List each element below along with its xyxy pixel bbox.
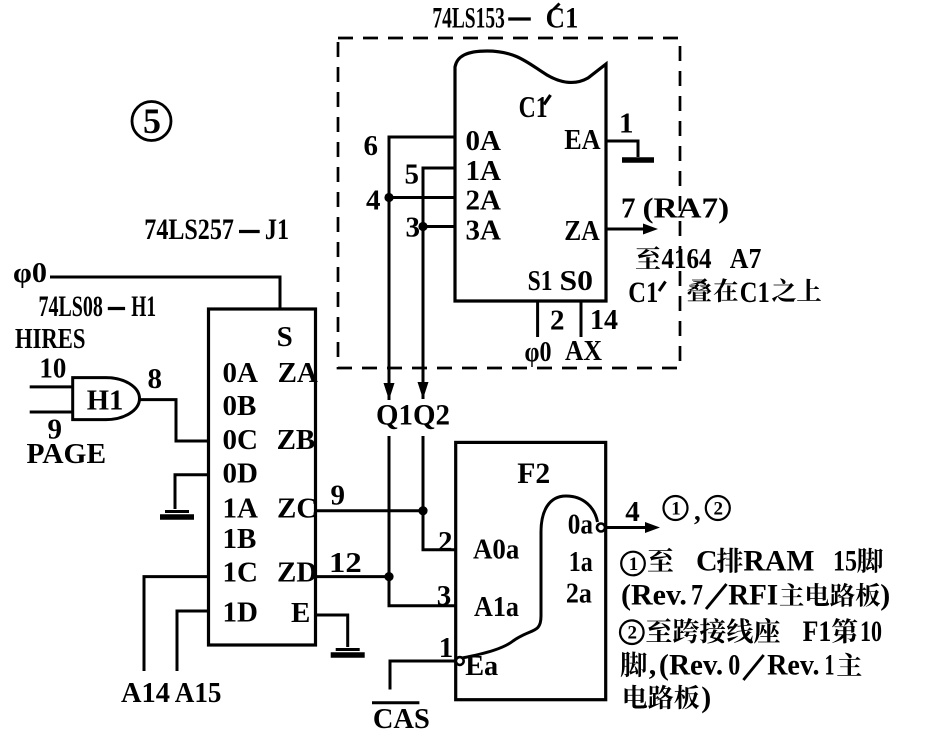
svg-text:3: 3 xyxy=(406,212,421,244)
annotation line 2: (Rev.7/RFI main circuit board) xyxy=(621,579,890,612)
wire E to ground xyxy=(316,615,348,647)
ground at E xyxy=(336,648,360,651)
svg-text:C1: C1 xyxy=(740,276,770,309)
wire 0D to ground xyxy=(175,475,209,509)
svg-text:14: 14 xyxy=(590,304,618,336)
svg-text:F1: F1 xyxy=(803,615,832,648)
svg-text:12: 12 xyxy=(329,547,362,579)
wire Q1 down to A1a pin3 xyxy=(389,436,456,606)
svg-text:7: 7 xyxy=(621,193,636,225)
wire PAGE input xyxy=(30,411,73,414)
svg-text:4: 4 xyxy=(625,496,640,528)
svg-text:10: 10 xyxy=(39,353,66,385)
junction node pin4/Q1 xyxy=(384,193,393,202)
svg-text:AX: AX xyxy=(565,335,602,367)
svg-text:1: 1 xyxy=(619,108,634,140)
title 74LS257-J1 xyxy=(144,213,289,246)
wire 1D to A15 xyxy=(177,611,209,671)
wire pin5 to 1A xyxy=(423,168,455,227)
title 74LS153-C1' xyxy=(432,2,578,35)
svg-text:0D: 0D xyxy=(223,458,258,490)
annotation line 5: circuit board) xyxy=(625,681,712,714)
annotation: C1' stacked on C1 xyxy=(628,276,821,309)
wire ZD output pin12 xyxy=(316,575,390,578)
svg-text:1: 1 xyxy=(629,554,639,575)
svg-text:2a: 2a xyxy=(566,579,592,610)
svg-text:1a: 1a xyxy=(569,547,593,578)
svg-text:S1: S1 xyxy=(528,265,553,297)
svg-text:ZA: ZA xyxy=(564,215,600,247)
svg-text:1: 1 xyxy=(825,649,835,682)
svg-text:0C: 0C xyxy=(223,424,258,456)
svg-text:1: 1 xyxy=(671,499,681,520)
wire phi0 to S pin xyxy=(50,277,280,309)
output bubble at 0a xyxy=(597,524,605,532)
svg-text:CAS: CAS xyxy=(373,703,430,735)
svg-text:9: 9 xyxy=(331,480,346,512)
svg-text:A0a: A0a xyxy=(473,535,519,566)
annotation line 4: pin,(Rev.0/Rev.1 main xyxy=(621,649,862,682)
circled note markers 1,2 at output xyxy=(664,496,730,526)
svg-text:3: 3 xyxy=(437,580,452,612)
svg-text:RAM: RAM xyxy=(743,545,814,578)
svg-text:(RA7): (RA7) xyxy=(643,193,730,225)
svg-text:8: 8 xyxy=(148,363,163,395)
svg-text:2: 2 xyxy=(714,499,724,520)
junction node ZC/Q2 xyxy=(418,506,427,515)
svg-text:): ) xyxy=(701,681,711,714)
svg-text:φ0: φ0 xyxy=(525,336,552,368)
svg-text:ZC: ZC xyxy=(277,493,317,525)
wire Q1 vertical from pin4 junction down with arrow xyxy=(388,198,391,401)
annotation: to 4164 A7 xyxy=(636,243,761,275)
svg-text:0A: 0A xyxy=(466,125,502,157)
ground at EA xyxy=(622,157,654,163)
svg-text:6: 6 xyxy=(364,130,379,162)
junction node ZD/Q1 xyxy=(384,572,393,581)
svg-text:EA: EA xyxy=(564,124,600,156)
svg-text:15: 15 xyxy=(833,545,857,578)
svg-text:2: 2 xyxy=(438,526,453,558)
wire ZC output pin9 xyxy=(316,509,424,512)
svg-text:1: 1 xyxy=(439,632,454,664)
annotation line 1: (1) to C-row RAM pin 15 xyxy=(621,545,883,578)
svg-text:74LS257: 74LS257 xyxy=(144,213,234,246)
wire HIRES input xyxy=(30,385,73,388)
chip J1 (74LS257) body xyxy=(209,309,316,645)
svg-text:2A: 2A xyxy=(466,185,502,217)
svg-text:A7: A7 xyxy=(730,243,762,275)
svg-text:0A: 0A xyxy=(223,357,259,389)
ground at 0D xyxy=(165,510,189,513)
svg-text:3A: 3A xyxy=(466,215,502,247)
svg-text:0a: 0a xyxy=(568,510,593,541)
svg-text:5: 5 xyxy=(143,101,161,141)
svg-text:1A: 1A xyxy=(223,493,259,525)
svg-text:S0: S0 xyxy=(560,265,594,297)
AND gate H1 xyxy=(73,378,140,420)
svg-text:C1: C1 xyxy=(628,276,658,309)
svg-text:C1: C1 xyxy=(546,2,579,35)
svg-text:ZB: ZB xyxy=(277,424,316,456)
inverting bubble at Ea pin1 xyxy=(456,657,464,665)
svg-text:1C: 1C xyxy=(223,557,258,589)
svg-text:5: 5 xyxy=(405,159,420,191)
svg-text:74LS08: 74LS08 xyxy=(39,290,103,323)
svg-text:2: 2 xyxy=(628,623,638,644)
svg-text:ZA: ZA xyxy=(278,357,318,389)
svg-text:(: ( xyxy=(659,649,669,682)
svg-text:HIRES: HIRES xyxy=(15,323,86,355)
svg-text:7: 7 xyxy=(691,579,703,612)
junction node pin3/Q2 xyxy=(418,222,427,231)
title 74LS08-H1 xyxy=(39,290,157,323)
chip F2 body xyxy=(456,442,606,699)
annotation line 3: (2) to jumper socket F1 pin 10 xyxy=(620,615,882,648)
wire H1 output to 0C xyxy=(139,400,209,441)
svg-text:Q1Q2: Q1Q2 xyxy=(376,399,450,432)
svg-text:C1: C1 xyxy=(519,89,548,124)
svg-text:10: 10 xyxy=(860,615,882,648)
wire Q2 down to A0a pin2 xyxy=(423,436,456,550)
wire S1 select pin xyxy=(536,301,539,337)
svg-text:4164: 4164 xyxy=(662,244,712,275)
svg-text:1D: 1D xyxy=(223,597,258,629)
svg-text:RFI: RFI xyxy=(728,579,778,612)
wire ZA output with arrow xyxy=(606,228,648,231)
wire S0 select pin xyxy=(580,301,583,337)
svg-text:J1: J1 xyxy=(265,213,289,246)
svg-text:,: , xyxy=(649,649,657,682)
wire Q2 vertical from pin3 junction down with arrow xyxy=(422,227,425,400)
net label CAS with overline xyxy=(372,703,430,735)
figure number circled 5 xyxy=(132,101,171,141)
multiplexer chip C1' (74LS153) body with torn wavy top xyxy=(455,51,606,301)
svg-text:,: , xyxy=(694,496,701,526)
svg-text:1B: 1B xyxy=(223,523,257,555)
wire CAS to Ea xyxy=(390,661,455,690)
svg-text:H1: H1 xyxy=(87,385,124,417)
chip C1' internal designator label xyxy=(519,89,551,124)
torn-chip curve inside F2 xyxy=(462,496,598,658)
svg-text:C: C xyxy=(696,545,718,578)
svg-text:E: E xyxy=(291,597,310,629)
svg-text:ZD: ZD xyxy=(277,557,317,589)
wire 1C to A14 xyxy=(144,577,209,671)
wire pin4 to 2A xyxy=(389,196,455,199)
svg-text:S: S xyxy=(277,321,293,353)
dashed enclosure box around C1 xyxy=(338,38,680,368)
svg-text:(Rev.: (Rev. xyxy=(621,579,687,612)
svg-text:H1: H1 xyxy=(131,290,156,323)
svg-text:1A: 1A xyxy=(466,155,502,187)
svg-text:Rev.: Rev. xyxy=(767,649,819,682)
svg-text:PAGE: PAGE xyxy=(27,438,107,470)
svg-text:F2: F2 xyxy=(517,457,550,490)
wire 0a output pin4 with arrow xyxy=(605,526,648,529)
svg-text:4: 4 xyxy=(366,185,381,217)
svg-text:φ0: φ0 xyxy=(13,257,47,289)
svg-text:A14: A14 xyxy=(121,677,170,709)
svg-text:A1a: A1a xyxy=(474,592,519,623)
svg-text:A15: A15 xyxy=(175,677,222,709)
svg-text:0: 0 xyxy=(728,649,740,682)
svg-text:74LS153: 74LS153 xyxy=(432,2,504,35)
svg-text:Rev.: Rev. xyxy=(669,649,723,682)
wire pin6 to 0A xyxy=(389,137,455,198)
svg-text:): ) xyxy=(880,579,890,612)
wire pin3 to 3A xyxy=(423,225,455,228)
svg-text:2: 2 xyxy=(550,305,565,337)
svg-text:0B: 0B xyxy=(223,390,257,422)
wire EA to ground xyxy=(606,141,638,157)
